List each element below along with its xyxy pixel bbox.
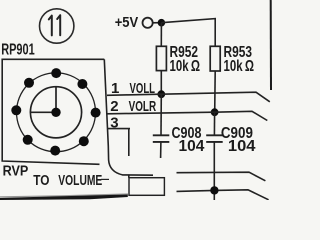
callout label 11 bbox=[49, 15, 60, 35]
svg-text:10k Ω: 10k Ω bbox=[224, 58, 255, 75]
capacitor C909 bbox=[206, 112, 223, 200]
wire R953 to VOLR node bbox=[214, 71, 217, 112]
potentiometer inner circle bbox=[30, 87, 81, 138]
junction dot VOLR node bbox=[211, 108, 219, 116]
wire R952 to VOLL node bbox=[160, 71, 162, 95]
pin 3 stub wire bbox=[128, 129, 130, 156]
wire VOLR net bbox=[107, 111, 267, 120]
component box (bottom) bbox=[129, 178, 164, 196]
wire +5V node to R953 branch (top horizontal) bbox=[161, 19, 215, 47]
resistor R953 bbox=[210, 46, 220, 71]
svg-text:104: 104 bbox=[228, 138, 256, 155]
potentiometer RP901 outer ring bbox=[17, 73, 96, 152]
svg-text:+5V: +5V bbox=[115, 14, 139, 31]
stub continuation tick bbox=[128, 174, 130, 177]
potentiometer terminal dots bbox=[11, 68, 100, 156]
callout circle 11 bbox=[40, 9, 74, 43]
wire terminal to junction bbox=[153, 22, 158, 24]
arrow over E bbox=[101, 178, 109, 180]
bottom wire (upper) bbox=[177, 172, 266, 181]
RP901 box bbox=[2, 59, 104, 164]
junction dot VOLL node bbox=[157, 90, 165, 98]
svg-text:1: 1 bbox=[111, 80, 119, 97]
scan artifact: right page edge bbox=[270, 0, 272, 90]
junction dot +5V node bbox=[158, 19, 166, 27]
wire VOLL net bbox=[107, 92, 270, 102]
connector edge / pin-3 wire with rounded corner bbox=[104, 59, 153, 175]
scan artifact: black band bottom-left bbox=[0, 194, 128, 197]
potentiometer wiper lines bbox=[30, 87, 56, 113]
wire +5V node down to R952 bbox=[160, 23, 162, 47]
svg-text:VOLL: VOLL bbox=[130, 80, 156, 97]
svg-text:10k Ω: 10k Ω bbox=[170, 58, 201, 75]
svg-text:2: 2 bbox=[110, 98, 118, 115]
svg-text:VOLUME: VOLUME bbox=[58, 173, 102, 189]
+5V terminal (open circle) bbox=[143, 18, 153, 28]
svg-text:RP901: RP901 bbox=[1, 42, 35, 59]
svg-text:104: 104 bbox=[179, 138, 205, 155]
potentiometer center dot bbox=[51, 108, 60, 117]
resistor R952 bbox=[156, 46, 166, 70]
bottom wire (lower) bbox=[177, 190, 269, 200]
svg-text:RVP: RVP bbox=[3, 163, 29, 180]
svg-text:TO: TO bbox=[33, 173, 49, 189]
svg-text:VOLR: VOLR bbox=[129, 98, 157, 115]
junction dot bottom node bbox=[210, 186, 218, 194]
capacitor C908 bbox=[153, 94, 170, 158]
pin 3 cell line bbox=[107, 128, 130, 130]
